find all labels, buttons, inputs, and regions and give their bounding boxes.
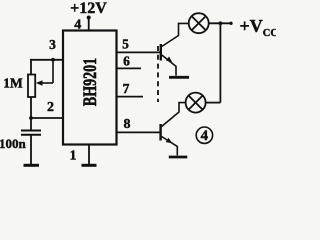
lamp LP2 circle xyxy=(186,93,206,113)
transistor Q1 base bar xyxy=(160,44,162,61)
svg-text:3: 3 xyxy=(49,37,56,52)
wire pin6 stub xyxy=(117,67,142,69)
wire wiper vertical xyxy=(52,60,54,83)
wire cap to ground xyxy=(30,135,32,165)
ground left xyxy=(24,164,40,167)
transistor Q2 collector xyxy=(162,103,186,127)
wire pin1 to ground xyxy=(88,145,90,165)
wire lamp1 to Vcc xyxy=(209,22,231,24)
transistor Q2 base bar xyxy=(159,124,161,141)
node +Vcc terminal dot xyxy=(229,22,232,25)
wire rail down to resistor top xyxy=(30,59,32,75)
op-amp U1 BH9201 IC body xyxy=(63,31,117,145)
resistor R1 1M potentiometer body xyxy=(28,75,35,98)
capacitor C1 100n bottom plate xyxy=(21,134,41,136)
transistor Q2 emitter xyxy=(162,137,178,156)
wire lamp2 to rail xyxy=(206,102,221,104)
svg-text:5: 5 xyxy=(122,37,129,52)
wire pin8 to Q2 base xyxy=(117,131,161,133)
ground Q1 emitter xyxy=(169,76,189,79)
transistor Q1 collector xyxy=(162,23,189,46)
dashed line (more channels) xyxy=(157,46,159,102)
figure number circled 4 xyxy=(196,127,212,144)
lamp LP1 cross xyxy=(192,16,206,30)
wire wiper horizontal xyxy=(40,82,53,84)
svg-text:+12V: +12V xyxy=(70,0,107,17)
svg-text:7: 7 xyxy=(123,81,130,96)
transistor Q1 emitter xyxy=(162,55,176,76)
junction dot wiper/pin3 xyxy=(51,58,55,62)
svg-text:4: 4 xyxy=(201,128,209,144)
wire pin5 to Q1 base xyxy=(117,51,161,53)
ground IC pin1 xyxy=(82,164,97,167)
svg-text:1: 1 xyxy=(70,148,77,163)
lamp LP1 circle xyxy=(189,13,209,33)
svg-text:6: 6 xyxy=(123,53,130,68)
wire Vcc rail vertical xyxy=(219,23,221,102)
svg-text:BH9201: BH9201 xyxy=(79,58,101,106)
node +12V terminal dot xyxy=(87,16,91,20)
svg-text:8: 8 xyxy=(124,117,131,132)
wire pin2 horizontal xyxy=(31,117,63,119)
junction dot pin2 xyxy=(29,116,33,120)
capacitor C1 100n top plate xyxy=(21,130,41,132)
svg-text:2: 2 xyxy=(47,100,54,115)
transistor Q2 emitter arrowhead xyxy=(166,138,173,144)
ground Q2 emitter xyxy=(169,156,188,159)
svg-text:1M: 1M xyxy=(3,76,23,91)
wire pin7 stub xyxy=(117,96,144,98)
wire pin3 horizontal xyxy=(30,59,63,61)
lamp LP2 cross xyxy=(189,96,203,110)
transistor Q1 emitter arrowhead xyxy=(166,57,172,63)
svg-text:100n: 100n xyxy=(0,136,27,151)
wire pin4 to +12V xyxy=(88,18,90,31)
wire resistor bottom to cap xyxy=(30,97,32,131)
junction dot Vcc rail xyxy=(219,21,223,25)
svg-text:4: 4 xyxy=(74,17,81,32)
wiper arrowhead xyxy=(36,80,43,86)
